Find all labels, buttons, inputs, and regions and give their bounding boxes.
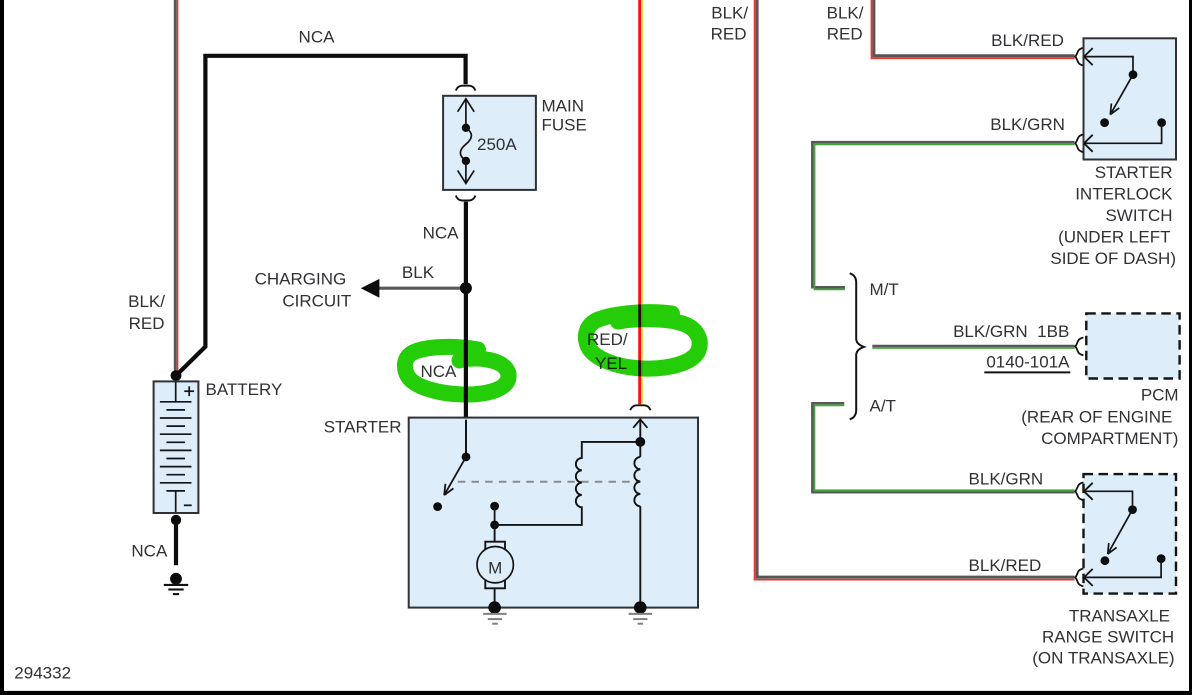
label PCM location <box>1021 386 1178 448</box>
svg-text:INTERLOCK: INTERLOCK <box>1075 185 1173 204</box>
fuse F1 MAIN FUSE 250A <box>443 96 536 190</box>
starter solenoid switch <box>433 420 499 530</box>
svg-text:BLK/GRN: BLK/GRN <box>969 470 1044 489</box>
label RED/YEL <box>587 330 628 373</box>
svg-text:294332: 294332 <box>14 664 71 683</box>
wire BLK/GRN 1BB to PCM <box>872 346 1074 348</box>
svg-text:(REAR OF ENGINE: (REAR OF ENGINE <box>1021 408 1172 427</box>
wire BLK/RED to interlock switch <box>872 0 1075 58</box>
svg-text:M/T: M/T <box>870 280 899 299</box>
wire NCA battery to main fuse <box>176 56 466 376</box>
motor M1 <box>477 525 513 608</box>
svg-text:BLK/: BLK/ <box>128 292 165 311</box>
node battery negative <box>171 515 181 525</box>
connector main fuse bottom pin <box>456 196 476 201</box>
svg-text:RED: RED <box>129 314 165 333</box>
label CHARGING CIRCUIT <box>255 270 352 311</box>
svg-text:CHARGING: CHARGING <box>255 270 347 289</box>
starter box <box>409 418 698 608</box>
annotation green circle NCA <box>405 347 509 395</box>
svg-text:SIDE OF DASH): SIDE OF DASH) <box>1050 249 1176 268</box>
ground battery <box>164 573 188 594</box>
svg-text:CIRCUIT: CIRCUIT <box>282 292 351 311</box>
battery B1 <box>154 381 199 513</box>
ground coil <box>629 614 652 624</box>
svg-text:0140-101A: 0140-101A <box>986 353 1070 372</box>
label BLK/ RED first <box>711 4 749 44</box>
label STARTER INTERLOCK SWITCH <box>1050 163 1176 268</box>
svg-text:(ON TRANSAXLE): (ON TRANSAXLE) <box>1032 648 1174 667</box>
brace M/T A/T <box>850 273 864 419</box>
connector PCM pin <box>1075 338 1083 356</box>
transaxle range switch S2 <box>1084 474 1177 593</box>
wire BLK/GRN interlock to M/T <box>812 142 1074 289</box>
node coil junction <box>635 437 645 447</box>
svg-text:MAIN: MAIN <box>542 97 585 116</box>
node NCA BLK junction <box>460 282 472 294</box>
label TRANSAXLE RANGE SWITCH <box>1032 606 1174 667</box>
svg-text:NCA: NCA <box>421 362 458 381</box>
ground motor <box>483 614 506 624</box>
node coil ground <box>634 601 647 614</box>
solenoid hold-in coil L2 <box>633 419 647 607</box>
label BLK/RED battery wire <box>128 292 165 333</box>
svg-text:M: M <box>488 559 502 578</box>
connector transaxle pin 1 <box>1075 482 1083 500</box>
wire RED/YEL ignition <box>640 0 642 404</box>
svg-text:SWITCH: SWITCH <box>1105 206 1172 225</box>
connector interlock pin 1 <box>1075 48 1083 66</box>
wire NCA battery to ground <box>174 520 178 565</box>
svg-text:FUSE: FUSE <box>542 116 587 135</box>
wire NCA fuse to starter <box>464 202 468 419</box>
annotation green circle RED/YEL <box>586 312 700 368</box>
svg-text:250A: 250A <box>477 135 517 154</box>
svg-text:A/T: A/T <box>870 396 896 415</box>
connector starter solenoid top pin <box>630 405 650 410</box>
wire BLK to charging circuit <box>361 279 460 298</box>
svg-text:COMPARTMENT): COMPARTMENT) <box>1041 429 1178 448</box>
wire BLK/GRN A/T to transaxle <box>812 403 1074 492</box>
PCM box <box>1086 313 1179 378</box>
svg-text:PCM: PCM <box>1141 386 1179 405</box>
solenoid pull-in coil L1 <box>495 442 641 525</box>
svg-text:NCA: NCA <box>423 223 460 242</box>
node battery positive junction <box>171 370 182 381</box>
label BLK/ RED second <box>827 4 864 44</box>
dashed gray link <box>458 481 641 483</box>
starter interlock switch U1 <box>1084 38 1177 159</box>
svg-text:NCA: NCA <box>131 542 168 561</box>
svg-text:BLK/: BLK/ <box>827 4 864 23</box>
node motor ground <box>488 601 501 614</box>
svg-text:NCA: NCA <box>299 28 336 47</box>
connector interlock pin 2 <box>1075 134 1083 152</box>
label MAIN FUSE <box>542 97 587 135</box>
connector transaxle pin 2 <box>1075 569 1083 587</box>
svg-text:BLK/GRN 1BB: BLK/GRN 1BB <box>953 322 1069 341</box>
connector main fuse top pin <box>456 86 476 91</box>
svg-text:BATTERY: BATTERY <box>206 380 283 399</box>
svg-text:RED: RED <box>711 25 747 44</box>
wire BLK/RED battery positive (left vertical) <box>175 0 177 374</box>
svg-text:(UNDER LEFT: (UNDER LEFT <box>1058 228 1170 247</box>
svg-text:RED: RED <box>827 25 863 44</box>
svg-text:BLK/RED: BLK/RED <box>969 556 1042 575</box>
svg-text:BLK: BLK <box>402 263 435 282</box>
svg-text:RANGE SWITCH: RANGE SWITCH <box>1042 627 1174 646</box>
svg-text:STARTER: STARTER <box>324 417 402 436</box>
label 0140-101A <box>984 353 1070 373</box>
svg-text:BLK/RED: BLK/RED <box>991 31 1064 50</box>
svg-text:TRANSAXLE: TRANSAXLE <box>1069 606 1170 625</box>
svg-text:BLK/: BLK/ <box>711 4 748 23</box>
wire BLK/RED to transaxle switch <box>755 0 1075 580</box>
svg-text:BLK/GRN: BLK/GRN <box>990 115 1065 134</box>
svg-text:STARTER: STARTER <box>1095 163 1173 182</box>
